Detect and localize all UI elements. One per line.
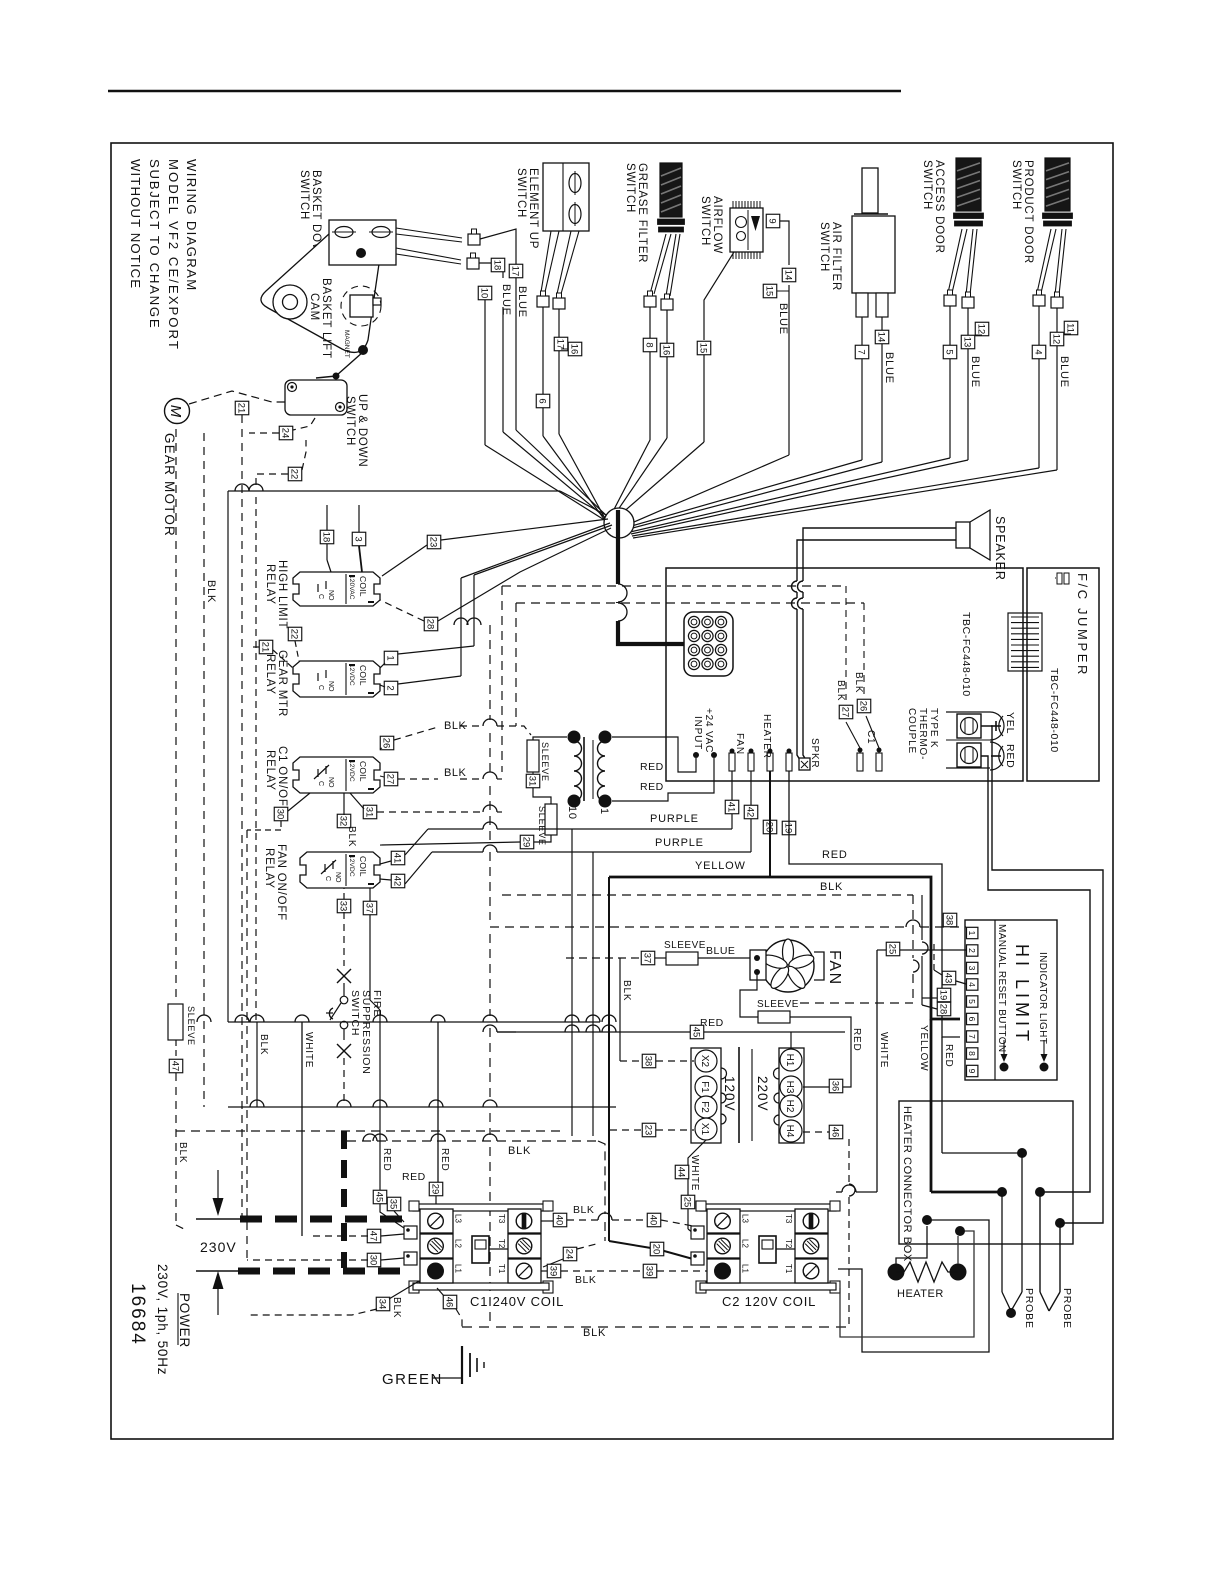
element up switch body (543, 163, 589, 231)
wire 33 stub (343, 888, 345, 899)
svg-text:16: 16 (569, 344, 580, 355)
title SUBJECT TO CHANGE (147, 159, 162, 329)
wire motor to updown switch (189, 391, 285, 404)
svg-text:31: 31 (364, 807, 375, 818)
fan feed dashed (566, 957, 641, 959)
purple bus 2 (432, 771, 751, 852)
label BLK bottom (583, 1327, 606, 1339)
wire 18 from basket plug (479, 263, 503, 278)
svg-text:BLK: BLK (820, 881, 843, 893)
label AIRFLOW SWITCH (699, 196, 723, 254)
wire transformer RED b (612, 758, 714, 801)
svg-text:230V: 230V (200, 1239, 237, 1255)
transformer T1 coils (568, 731, 612, 808)
thick dashed 230V upper (240, 1216, 413, 1223)
wire 27 net (380, 772, 502, 779)
svg-text:NO: NO (327, 777, 334, 788)
svg-text:10: 10 (566, 806, 578, 820)
label RED x380 (381, 1148, 392, 1172)
svg-text:BLK: BLK (258, 1034, 269, 1055)
wire vert x461 (461, 523, 610, 676)
svg-text:26: 26 (858, 701, 869, 712)
svg-text:BASKET LIFT: BASKET LIFT (320, 278, 332, 359)
svg-text:15: 15 (698, 343, 709, 354)
svg-text:34: 34 (377, 1299, 388, 1310)
dashed vertical x502 (501, 586, 503, 772)
tag 46 c1 (443, 1295, 457, 1309)
tag 22 (288, 467, 302, 481)
svg-text:8: 8 (967, 1051, 977, 1056)
svg-text:SLEEVE: SLEEVE (664, 940, 706, 951)
label GREASE FILTER SWITCH (624, 163, 648, 263)
tag 18 relay (320, 530, 334, 544)
tag 45 fan (690, 1025, 704, 1039)
svg-text:120V: 120V (722, 1076, 737, 1112)
svg-text:21: 21 (260, 642, 271, 653)
svg-text:BLUE: BLUE (1058, 356, 1070, 388)
svg-text:40: 40 (648, 1215, 659, 1226)
wire 45 35 to connector (380, 1204, 410, 1231)
red bus to hilimit (789, 771, 960, 1153)
svg-text:YELLOW: YELLOW (918, 1025, 929, 1071)
wire 28 net (380, 528, 611, 621)
svg-text:SWITCH: SWITCH (921, 160, 933, 210)
tag 9 (766, 214, 780, 228)
SPKR pin (799, 758, 810, 770)
svg-text:25: 25 (682, 1197, 693, 1208)
tag 30 (274, 807, 288, 821)
blk dash y1003 (800, 1002, 913, 1004)
basket plug lower (467, 253, 479, 269)
label RED hilimit (943, 1044, 954, 1068)
svg-text:1: 1 (385, 655, 396, 660)
dashed center x490 (489, 625, 491, 1327)
label TBC-FC448-010 fc (1048, 668, 1060, 753)
svg-text:22: 22 (289, 629, 300, 640)
thick dashed 230V vertical (341, 1131, 347, 1268)
svg-text:BLK: BLK (444, 720, 466, 732)
svg-text:SLEEVE: SLEEVE (540, 742, 550, 782)
svg-text:10: 10 (479, 288, 490, 299)
wire 40 right (661, 1220, 693, 1226)
solid bus y491 (228, 491, 610, 1022)
wire hilimit t1 (490, 920, 966, 927)
wire 41 net (380, 829, 428, 864)
C2 aux connector lower (691, 1252, 704, 1265)
red bus y1032 (483, 1025, 845, 1032)
svg-text:M: M (167, 405, 184, 418)
label PURPLE 1 (650, 813, 699, 825)
tag 23 x1 (642, 1123, 656, 1137)
svg-text:37: 37 (642, 953, 653, 964)
tag 23 (427, 535, 441, 549)
heater connector box (899, 1101, 1073, 1244)
tag 35 (387, 1197, 401, 1211)
svg-text:18: 18 (492, 260, 503, 271)
svg-text:BLK: BLK (444, 767, 466, 779)
svg-text:28: 28 (938, 1004, 949, 1015)
tag 39 c1 (547, 1264, 561, 1278)
svg-text:40: 40 (554, 1215, 565, 1226)
svg-text:38: 38 (944, 915, 955, 926)
12 pin connector (684, 612, 733, 676)
tag 20 c2 (650, 1242, 664, 1256)
svg-text:RED: RED (851, 1028, 862, 1052)
dashed vertical x516 (515, 603, 517, 726)
svg-text:TYPE K: TYPE K (928, 708, 939, 748)
wire 3 to relay (359, 505, 362, 572)
wire product a (632, 306, 1039, 536)
svg-text:C1 240V COIL: C1 240V COIL (470, 1294, 564, 1309)
svg-text:X2: X2 (699, 1055, 710, 1068)
junction node (604, 508, 634, 538)
up-down microswitch body (285, 380, 347, 415)
svg-text:12: 12 (1051, 334, 1062, 345)
stub 15 airflow (777, 290, 789, 292)
svg-text:SLEEVE: SLEEVE (537, 806, 547, 846)
svg-text:39: 39 (644, 1266, 655, 1277)
svg-text:SPKR: SPKR (809, 738, 820, 768)
tag 28 (424, 617, 438, 631)
label HEATER (897, 1288, 944, 1300)
wire 19 28 (922, 895, 937, 1009)
wire 40 c1 (541, 1213, 647, 1221)
svg-text:3: 3 (967, 966, 977, 971)
tag 26 relay (380, 736, 394, 750)
tag 39 c2 (643, 1264, 657, 1278)
svg-text:RED: RED (1004, 744, 1016, 769)
label BLUE airflow (777, 303, 789, 335)
tag 25 c2 (681, 1195, 695, 1209)
purple bus 1 (428, 771, 732, 829)
tag 26 board (857, 699, 871, 713)
tag 36 (829, 1079, 843, 1093)
svg-text:COIL: COIL (358, 576, 368, 597)
svg-text:24: 24 (280, 428, 291, 439)
label WHITE 44 (689, 1155, 700, 1191)
heater element (888, 1262, 967, 1282)
tag 27 board (839, 705, 853, 719)
svg-text:L1: L1 (454, 1264, 463, 1273)
label BLK x204 (205, 580, 217, 603)
svg-text:8: 8 (644, 342, 655, 347)
wire airflow left (613, 252, 734, 521)
svg-text:4: 4 (1033, 349, 1044, 354)
wire transformer RED a (612, 737, 696, 772)
wire 18 to relay (327, 505, 331, 572)
svg-text:BLK: BLK (575, 1274, 596, 1286)
svg-text:46: 46 (830, 1127, 841, 1138)
svg-text:42: 42 (392, 876, 403, 887)
wire 22 net (256, 440, 306, 1020)
label BASKET DOWN SWITCH (298, 170, 322, 264)
label RED 29 (402, 1171, 426, 1183)
title MODEL VF2 CE/EXPORT (166, 159, 181, 351)
svg-text:SWITCH: SWITCH (1010, 160, 1022, 210)
svg-text:47: 47 (368, 1231, 379, 1242)
hi limit terminal strip (967, 927, 978, 1076)
svg-text:BLK: BLK (835, 680, 846, 701)
svg-text:12VDC: 12VDC (348, 760, 355, 782)
label TYPE K THERMOCOUPLE (906, 708, 939, 760)
svg-text:GEAR MTR: GEAR MTR (276, 650, 288, 717)
tag 14 airfilter (875, 330, 889, 344)
svg-text:WHITE: WHITE (878, 1032, 889, 1068)
label WHITE x877 (878, 1032, 889, 1068)
svg-text:FAN: FAN (734, 733, 745, 755)
svg-text:F/C JUMPER: F/C JUMPER (1075, 573, 1090, 677)
board pin 42 (748, 749, 754, 772)
wire airfilter left (628, 317, 862, 527)
wire 2 net (380, 676, 461, 687)
label RED x438 (439, 1148, 450, 1172)
svg-text:H3: H3 (784, 1081, 795, 1094)
branch x572 (571, 829, 573, 1136)
svg-text:RELAY: RELAY (264, 564, 276, 605)
svg-text:38: 38 (643, 1056, 654, 1067)
tag 17 element (554, 337, 568, 351)
transformer T2 220V side (774, 1048, 805, 1143)
wire 31 net (350, 793, 502, 812)
wire 30 c1 (247, 1258, 404, 1260)
wire airflow right (627, 221, 789, 525)
tag 24 (279, 426, 293, 440)
wire x438 red (437, 1022, 439, 1182)
tag 20 board (763, 820, 777, 834)
svg-text:28: 28 (425, 619, 436, 630)
svg-text:C: C (317, 594, 324, 599)
stub 11 product (1064, 333, 1071, 335)
red wire x380 to 45 (379, 1189, 381, 1191)
label ELEMENT UP SWITCH (515, 168, 539, 249)
cam follower lever (316, 352, 363, 380)
label MANUAL RESET BUTTON (996, 924, 1007, 1053)
sleeve 47 far left (168, 1003, 196, 1059)
airflow switch body (730, 201, 763, 259)
tag 41 relay (391, 851, 405, 865)
wire 29 sleeve (380, 835, 551, 845)
svg-text:SLEEVE: SLEEVE (186, 1006, 196, 1046)
heater loop outer (838, 1215, 989, 1352)
wire basket 10 down (485, 300, 606, 521)
svg-text:15: 15 (764, 286, 775, 297)
dashed bus y586 (502, 585, 846, 587)
tag 40 c1 (553, 1213, 567, 1227)
svg-text:SUBJECT TO CHANGE: SUBJECT TO CHANGE (147, 159, 162, 329)
svg-text:+24 VAC: +24 VAC (703, 708, 714, 753)
label BASKET LIFT CAM (308, 278, 332, 359)
stub 16 element (561, 348, 568, 350)
svg-text:F1: F1 (699, 1081, 710, 1093)
manual reset arrow (1000, 1040, 1009, 1072)
svg-text:7: 7 (967, 1034, 977, 1039)
element plug 1 (537, 291, 549, 307)
label 120V (722, 1076, 737, 1112)
svg-text:WITHOUT NOTICE: WITHOUT NOTICE (128, 159, 143, 289)
wire 39 net (541, 1270, 710, 1272)
wire basket 17 down (516, 278, 608, 517)
wire 22 stub (295, 641, 299, 661)
hop 28 over461 (454, 618, 468, 625)
label 230V (200, 1239, 237, 1255)
wire airfilter right (629, 317, 882, 529)
svg-text:25: 25 (887, 944, 898, 955)
C1 aux connector upper (404, 1226, 417, 1239)
label 220V (755, 1076, 770, 1112)
svg-text:19: 19 (938, 990, 949, 1001)
label SPEAKER (993, 516, 1007, 581)
tag 15 airflow lower (697, 341, 711, 355)
svg-text:WHITE: WHITE (303, 1032, 314, 1068)
label BLK y1141 (508, 1145, 531, 1157)
tag 19 board (782, 821, 796, 835)
svg-text:BLUE: BLUE (777, 303, 789, 335)
svg-text:2: 2 (385, 685, 396, 690)
tag 45 c1 (373, 1190, 387, 1204)
svg-text:20: 20 (651, 1244, 662, 1255)
label RED y1032 (700, 1017, 724, 1029)
basket lift cam (261, 224, 381, 352)
svg-text:9: 9 (967, 1069, 977, 1074)
label YELLOW hilimit (918, 1025, 929, 1071)
hop 28 over474 (467, 618, 481, 625)
blk line x620 (620, 958, 632, 1061)
label YELLOW (695, 860, 746, 872)
svg-text:45: 45 (374, 1192, 385, 1203)
wire basket 18 down (503, 307, 607, 519)
label BLK x176 (177, 1142, 188, 1163)
grease leads (650, 234, 680, 296)
wire access a (630, 306, 950, 532)
tag 47 left (169, 1059, 183, 1073)
air filter switch body (852, 168, 895, 317)
svg-text:9: 9 (767, 218, 778, 223)
svg-text:NO: NO (334, 872, 341, 883)
svg-text:17: 17 (555, 339, 566, 350)
label PRODUCT DOOR SWITCH (1010, 160, 1034, 264)
relay K2 gear motor (293, 661, 380, 697)
svg-text:13: 13 (962, 337, 973, 348)
svg-text:SPEAKER: SPEAKER (993, 516, 1007, 581)
svg-text:RELAY: RELAY (264, 654, 276, 695)
tag 11 product (1064, 321, 1078, 335)
svg-text:T3: T3 (784, 1214, 793, 1224)
transformer T2 120V side (691, 1048, 727, 1143)
fire suppression switch (326, 969, 351, 1058)
wire 29 to L3 (436, 1196, 437, 1213)
svg-text:44: 44 (676, 1167, 687, 1178)
wire 47 left down (176, 1073, 188, 1231)
svg-text:THERMO-: THERMO- (917, 708, 928, 760)
relay K1 high limit (293, 572, 380, 606)
svg-text:RELAY: RELAY (264, 750, 276, 791)
svg-text:37: 37 (364, 903, 375, 914)
tag 34 (376, 1297, 390, 1311)
wire grease b (611, 310, 667, 520)
svg-text:TBC-FC448-010: TBC-FC448-010 (960, 612, 972, 697)
svg-text:24: 24 (564, 1249, 575, 1260)
label INDICATOR LIGHT (1037, 952, 1048, 1044)
sleeve 31 to sleeve 29 (533, 788, 551, 804)
svg-text:POWER: POWER (177, 1293, 192, 1348)
svg-text:L3: L3 (454, 1214, 463, 1223)
svg-text:220V: 220V (755, 1076, 770, 1112)
tag 32 (337, 814, 351, 828)
svg-text:BLUE: BLUE (883, 352, 895, 384)
sleeve resistor 31 (527, 740, 550, 782)
svg-text:FAN: FAN (826, 950, 843, 986)
svg-text:YELLOW: YELLOW (695, 860, 746, 872)
wire 1 net (380, 646, 474, 668)
svg-text:COIL: COIL (358, 665, 368, 686)
svg-text:43: 43 (943, 973, 954, 984)
wire grease a (609, 307, 650, 519)
contactor C2 (696, 1201, 840, 1309)
svg-text:MODEL VF2 CE/EXPORT: MODEL VF2 CE/EXPORT (166, 159, 181, 351)
label ACCESS DOOR SWITCH (921, 160, 945, 254)
grease plug 2 (661, 294, 673, 310)
label BLUE basket 2 (516, 286, 528, 318)
svg-text:HIGH LIMIT: HIGH LIMIT (276, 560, 288, 629)
wire 23 x1 (610, 1129, 694, 1131)
wire hilimit t2 (877, 949, 966, 951)
tag 21 top (235, 401, 249, 415)
label FIRE SUPPRESSION SWITCH (349, 990, 383, 1075)
svg-text:COIL: COIL (358, 856, 368, 877)
svg-text:27: 27 (385, 774, 396, 785)
label PROBE 2 (1061, 1288, 1073, 1329)
stub 45 (790, 1032, 792, 1048)
svg-text:NO: NO (327, 590, 334, 601)
label BLK 32 (346, 826, 357, 847)
svg-text:C: C (324, 876, 331, 881)
svg-text:T2: T2 (784, 1239, 793, 1249)
label BLUE access (969, 356, 981, 388)
fan motor (761, 939, 816, 992)
svg-text:19: 19 (783, 823, 794, 834)
svg-text:BLUE: BLUE (500, 284, 512, 316)
wire 46 down (849, 1139, 855, 1327)
svg-text:33: 33 (338, 901, 349, 912)
svg-text:1: 1 (598, 808, 610, 815)
gear motor M (165, 399, 190, 424)
svg-text:INDICATOR LIGHT: INDICATOR LIGHT (1037, 952, 1048, 1044)
svg-text:L2: L2 (741, 1239, 750, 1248)
svg-text:30: 30 (368, 1255, 379, 1266)
title WIRING DIAGRAM (184, 159, 199, 292)
svg-text:2: 2 (967, 948, 977, 953)
label BLK 26 (444, 720, 466, 732)
tag 4 (1032, 345, 1046, 359)
board pin FAN (729, 749, 735, 772)
svg-text:RED: RED (381, 1148, 392, 1172)
tag 42 relay (391, 874, 405, 888)
tag 12 access (975, 322, 989, 336)
svg-text:14: 14 (783, 270, 794, 281)
probe 2 dots (1035, 1187, 1065, 1228)
label C1 ON/OFF RELAY (264, 746, 288, 815)
tag 3 relay (352, 532, 366, 546)
svg-text:41: 41 (392, 853, 403, 864)
svg-text:16684: 16684 (127, 1283, 148, 1346)
bold harness line (618, 510, 688, 644)
wire product b (633, 308, 1057, 538)
svg-text:11: 11 (1065, 323, 1076, 333)
svg-text:BLUE: BLUE (969, 356, 981, 388)
tag 25 hilimit (886, 942, 900, 956)
label C1 board (865, 730, 876, 744)
grease plug 1 (644, 291, 656, 307)
